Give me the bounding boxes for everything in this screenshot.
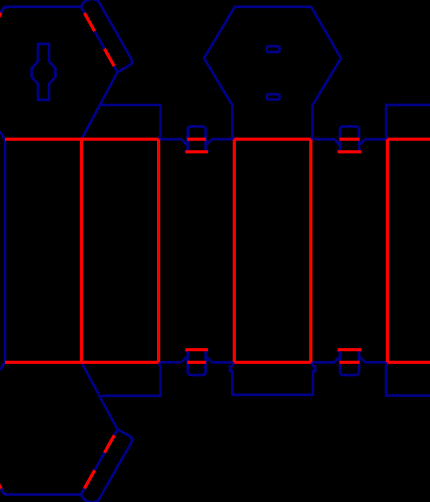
- top cut line segment a: [159, 138, 182, 141]
- tab T1 bottom left hook: [182, 357, 186, 362]
- keyhole lock cutout: [32, 44, 56, 100]
- tab T2 bottom upper bar: [338, 348, 362, 351]
- lid slot 2: [267, 94, 280, 99]
- panel crease 2: [157, 139, 160, 362]
- lock tab T2 bottom outline: [338, 349, 362, 375]
- dust flap P6 bottom: [386, 363, 430, 396]
- tab T2 bottom left hook: [335, 357, 339, 362]
- tab T1 bottom crease bar: [187, 361, 206, 364]
- tab T2 top right hook: [360, 140, 364, 145]
- dust flap P6 top: [386, 105, 430, 139]
- tab T1 bottom right hook: [207, 357, 211, 362]
- top strip perforation dashes: [84, 13, 114, 66]
- bottom cut line segment c: [311, 361, 335, 364]
- tab T2 bottom crease bar: [340, 361, 360, 364]
- panel crease 4: [309, 139, 312, 362]
- top-left hexagon lower-left edge: [0, 131, 5, 139]
- dust flap P2 top: [100, 105, 161, 138]
- top-left dashed edge blue part: [1, 7, 4, 13]
- bottom fold crease left: [5, 361, 159, 364]
- tab T1 top lower bar: [185, 150, 208, 153]
- left panel edge cut: [4, 139, 7, 362]
- panel crease 3: [233, 139, 236, 362]
- tab T1 top crease bar: [187, 138, 206, 141]
- top fold crease middle: [234, 138, 310, 141]
- bottom-left dashed edge blue part: [1, 489, 4, 495]
- top-left edge perforation dash: [0, 13, 1, 19]
- bottom cut line segment a: [159, 361, 182, 364]
- bottom fold crease middle: [234, 361, 310, 364]
- top fold crease left: [5, 138, 159, 141]
- bottom strip perforation dashes: [84, 435, 114, 488]
- bottom cut line segment b: [211, 361, 234, 364]
- top-left hexagon top edge: [5, 6, 82, 9]
- tab T2 top lower bar: [338, 150, 362, 153]
- bottom cut line segment d: [364, 361, 387, 364]
- tab T1 top left hook: [182, 140, 186, 145]
- dust flap P2 bottom: [102, 363, 161, 396]
- top fold crease right: [387, 138, 430, 141]
- top-left corner cap curve: [1, 7, 8, 13]
- top cut line segment d: [364, 138, 387, 141]
- dust flap P4 bottom: [230, 363, 315, 395]
- top tear strip outline: [80, 0, 134, 72]
- top-left hexagon lower-right edge: [82, 72, 118, 139]
- top cut line segment c: [311, 138, 335, 141]
- tab T2 top left hook: [335, 140, 339, 145]
- lock tab T2 top outline: [338, 126, 362, 152]
- tab T1 top right hook: [207, 140, 211, 145]
- tab T1 bottom upper bar: [185, 348, 208, 351]
- panel crease 5: [386, 139, 389, 362]
- middle hexagon lid outline: [204, 7, 341, 139]
- tab T2 top crease bar: [340, 138, 360, 141]
- top cut line segment b: [211, 138, 234, 141]
- bottom-left hexagon bottom edge: [5, 493, 82, 496]
- lock tab T1 top outline: [185, 126, 208, 152]
- bottom-left edge perforation dash: [0, 483, 1, 489]
- lid slot 1: [267, 46, 280, 52]
- bottom-left hexagon upper-right edge: [82, 362, 118, 429]
- bottom-left corner cap curve: [1, 489, 8, 495]
- tab T2 bottom right hook: [360, 357, 364, 362]
- lock tab T1 bottom outline: [185, 349, 208, 375]
- bottom tear strip outline: [80, 429, 134, 502]
- bottom fold crease right: [387, 361, 430, 364]
- bottom-left hexagon upper-left edge: [0, 362, 5, 370]
- panel crease 1: [80, 139, 83, 362]
